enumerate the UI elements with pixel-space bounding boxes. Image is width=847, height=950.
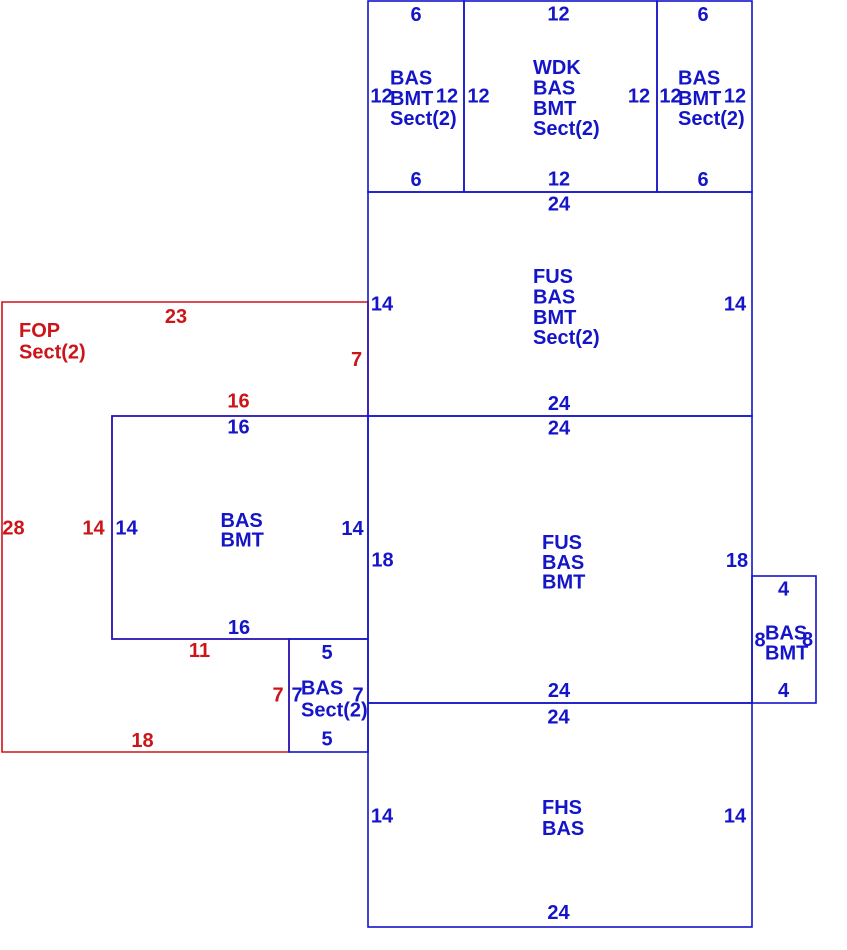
svg-text:BMT: BMT bbox=[221, 529, 264, 551]
svg-text:FUS: FUS bbox=[533, 266, 573, 288]
svg-text:6: 6 bbox=[410, 169, 421, 191]
svg-text:4: 4 bbox=[778, 680, 790, 702]
dimension 5 top of small rectangle bbox=[321, 642, 332, 664]
dimension 24 top of FUS Sect(2) bbox=[548, 194, 571, 216]
svg-text:12: 12 bbox=[548, 169, 570, 191]
area FUS BAS BMT rectangle bbox=[368, 416, 752, 703]
svg-text:12: 12 bbox=[628, 86, 650, 108]
svg-text:18: 18 bbox=[726, 550, 748, 572]
dimension 5 bottom of small rectangle bbox=[321, 729, 332, 751]
dimension 12 right of top-middle bbox=[628, 86, 650, 108]
svg-text:Sect(2): Sect(2) bbox=[390, 108, 457, 130]
dimension 12 bottom of top-middle bbox=[548, 169, 570, 191]
svg-text:BAS: BAS bbox=[533, 78, 575, 100]
svg-text:16: 16 bbox=[227, 391, 249, 413]
svg-text:14: 14 bbox=[115, 518, 138, 540]
svg-text:6: 6 bbox=[410, 4, 421, 26]
dimension 4 bottom of right rectangle bbox=[778, 680, 790, 702]
dimension 14 right of FHS bbox=[724, 806, 747, 828]
dimension 7 lower of FOP (red) bbox=[272, 685, 283, 707]
svg-text:23: 23 bbox=[165, 306, 187, 328]
dimension 8 left of right rectangle bbox=[754, 630, 765, 652]
svg-text:BAS: BAS bbox=[301, 678, 343, 700]
svg-text:Sect(2): Sect(2) bbox=[678, 108, 745, 130]
svg-text:FHS: FHS bbox=[542, 797, 582, 819]
svg-text:BAS: BAS bbox=[542, 818, 584, 840]
area BAS BMT left rectangle bbox=[112, 416, 368, 639]
svg-text:24: 24 bbox=[548, 680, 571, 702]
dimension 14 right of left rectangle (blue) bbox=[341, 518, 364, 540]
svg-text:BAS: BAS bbox=[678, 68, 720, 90]
dimension 24 top of FUS bbox=[548, 418, 571, 440]
svg-text:14: 14 bbox=[341, 518, 364, 540]
dimension 14 of FOP (red) bbox=[82, 518, 105, 540]
area FHS BAS rectangle bbox=[368, 703, 752, 927]
dimension 14 left of left rectangle (blue) bbox=[115, 518, 138, 540]
dimension 18 left of FUS bbox=[371, 550, 393, 572]
svg-text:5: 5 bbox=[321, 729, 332, 751]
dimension 14 right of FUS Sect(2) bbox=[724, 294, 747, 316]
svg-text:12: 12 bbox=[436, 86, 458, 108]
svg-text:7: 7 bbox=[352, 685, 363, 707]
dimension 16 top of left rectangle (blue) bbox=[227, 417, 249, 439]
svg-text:6: 6 bbox=[697, 169, 708, 191]
area BAS BMT Sect(2) top-left rectangle bbox=[368, 1, 464, 192]
dimension 6 bottom of top-left bbox=[410, 169, 421, 191]
svg-text:4: 4 bbox=[778, 579, 790, 601]
svg-text:FUS: FUS bbox=[542, 532, 582, 554]
dimension 24 top of FHS bbox=[547, 707, 570, 729]
svg-text:7: 7 bbox=[351, 349, 362, 371]
svg-text:24: 24 bbox=[547, 707, 570, 729]
svg-text:18: 18 bbox=[371, 550, 393, 572]
dimension 7 right upper of FOP (red) bbox=[351, 349, 362, 371]
svg-text:28: 28 bbox=[2, 518, 24, 540]
svg-text:8: 8 bbox=[754, 630, 765, 652]
dimension 11 of FOP (red) bbox=[189, 640, 210, 662]
svg-text:7: 7 bbox=[272, 685, 283, 707]
label FOP Sect(2) bbox=[19, 320, 86, 364]
label FHS BAS bbox=[542, 797, 584, 840]
dimension 7 right of small rectangle (blue) bbox=[352, 685, 363, 707]
dimension 12 right of top-right bbox=[724, 86, 746, 108]
svg-text:14: 14 bbox=[724, 806, 747, 828]
label BAS BMT left rectangle bbox=[221, 510, 264, 551]
label WDK BAS BMT Sect(2) top-middle bbox=[533, 57, 600, 140]
svg-text:5: 5 bbox=[321, 642, 332, 664]
svg-text:24: 24 bbox=[548, 194, 571, 216]
label BAS Sect(2) small rectangle bbox=[301, 678, 368, 722]
svg-text:FOP: FOP bbox=[19, 320, 60, 342]
svg-text:14: 14 bbox=[371, 806, 394, 828]
area BAS BMT Sect(2) top-right rectangle bbox=[657, 1, 752, 192]
svg-text:BMT: BMT bbox=[533, 98, 576, 120]
svg-text:BAS: BAS bbox=[390, 68, 432, 90]
dimension 18 bottom of FOP (red) bbox=[131, 730, 153, 752]
dimension 16 of FOP (red) bbox=[227, 391, 249, 413]
dimension 12 left of top-right bbox=[659, 86, 681, 108]
svg-text:BMT: BMT bbox=[542, 572, 585, 594]
svg-text:7: 7 bbox=[291, 685, 302, 707]
dimension 12 left of top-left bbox=[370, 86, 392, 108]
dimension 7 left of small rectangle (blue) bbox=[291, 685, 302, 707]
svg-text:16: 16 bbox=[228, 617, 250, 639]
dimension 4 top of right rectangle bbox=[778, 579, 790, 601]
svg-text:12: 12 bbox=[547, 4, 569, 26]
label FUS BAS BMT Sect(2) bbox=[533, 266, 600, 349]
area FUS BAS BMT Sect(2) rectangle bbox=[368, 192, 752, 416]
svg-text:Sect(2): Sect(2) bbox=[19, 342, 86, 364]
svg-text:12: 12 bbox=[467, 86, 489, 108]
svg-text:6: 6 bbox=[697, 4, 708, 26]
dimension 12 left of top-middle bbox=[467, 86, 489, 108]
dimension 6 top of top-left bbox=[410, 4, 421, 26]
svg-text:12: 12 bbox=[724, 86, 746, 108]
svg-text:14: 14 bbox=[82, 518, 105, 540]
dimension 16 bottom of left rectangle (blue) bbox=[228, 617, 250, 639]
label BAS BMT Sect(2) top-right bbox=[678, 68, 745, 131]
svg-text:12: 12 bbox=[370, 86, 392, 108]
label BAS BMT right rectangle bbox=[765, 622, 808, 664]
label FUS BAS BMT bbox=[542, 532, 585, 594]
dimension 8 right of right rectangle bbox=[802, 629, 813, 651]
dimension 12 right of top-left bbox=[436, 86, 458, 108]
svg-text:11: 11 bbox=[189, 640, 210, 662]
svg-text:16: 16 bbox=[227, 417, 249, 439]
dimension 18 right of FUS bbox=[726, 550, 748, 572]
dimension 14 left of FHS bbox=[371, 806, 394, 828]
area BAS Sect(2) small rectangle bbox=[289, 639, 368, 752]
svg-text:12: 12 bbox=[659, 86, 681, 108]
svg-text:BAS: BAS bbox=[542, 552, 584, 574]
svg-text:8: 8 bbox=[802, 629, 813, 651]
svg-text:14: 14 bbox=[724, 294, 747, 316]
svg-text:Sect(2): Sect(2) bbox=[533, 327, 600, 349]
dimension 14 left of FUS Sect(2) bbox=[371, 294, 394, 316]
svg-text:Sect(2): Sect(2) bbox=[533, 118, 600, 140]
dimension 6 bottom of top-right bbox=[697, 169, 708, 191]
dimension 24 bottom of FUS Sect(2) bbox=[548, 393, 571, 415]
svg-text:BMT: BMT bbox=[533, 307, 576, 329]
dimension 24 bottom of FUS bbox=[548, 680, 571, 702]
label BAS BMT Sect(2) top-left bbox=[390, 68, 457, 131]
area WDK BAS BMT Sect(2) top-middle rectangle bbox=[464, 1, 657, 192]
svg-text:BMT: BMT bbox=[678, 88, 721, 110]
dimension 6 top of top-right bbox=[697, 4, 708, 26]
dimension 28 left of FOP (red) bbox=[2, 518, 24, 540]
dimension 12 top of top-middle bbox=[547, 4, 569, 26]
svg-text:24: 24 bbox=[548, 393, 571, 415]
svg-text:WDK: WDK bbox=[533, 57, 581, 79]
area BAS BMT right rectangle bbox=[752, 576, 816, 703]
svg-text:24: 24 bbox=[547, 902, 570, 924]
area FOP Sect(2) red polygon outline bbox=[2, 302, 368, 752]
svg-text:14: 14 bbox=[371, 294, 394, 316]
dimension 24 bottom of FHS bbox=[547, 902, 570, 924]
svg-text:18: 18 bbox=[131, 730, 153, 752]
svg-text:BAS: BAS bbox=[765, 622, 807, 644]
svg-text:24: 24 bbox=[548, 418, 571, 440]
svg-text:BAS: BAS bbox=[533, 287, 575, 309]
svg-text:BMT: BMT bbox=[390, 88, 433, 110]
dimension 23 top of FOP (red) bbox=[165, 306, 187, 328]
